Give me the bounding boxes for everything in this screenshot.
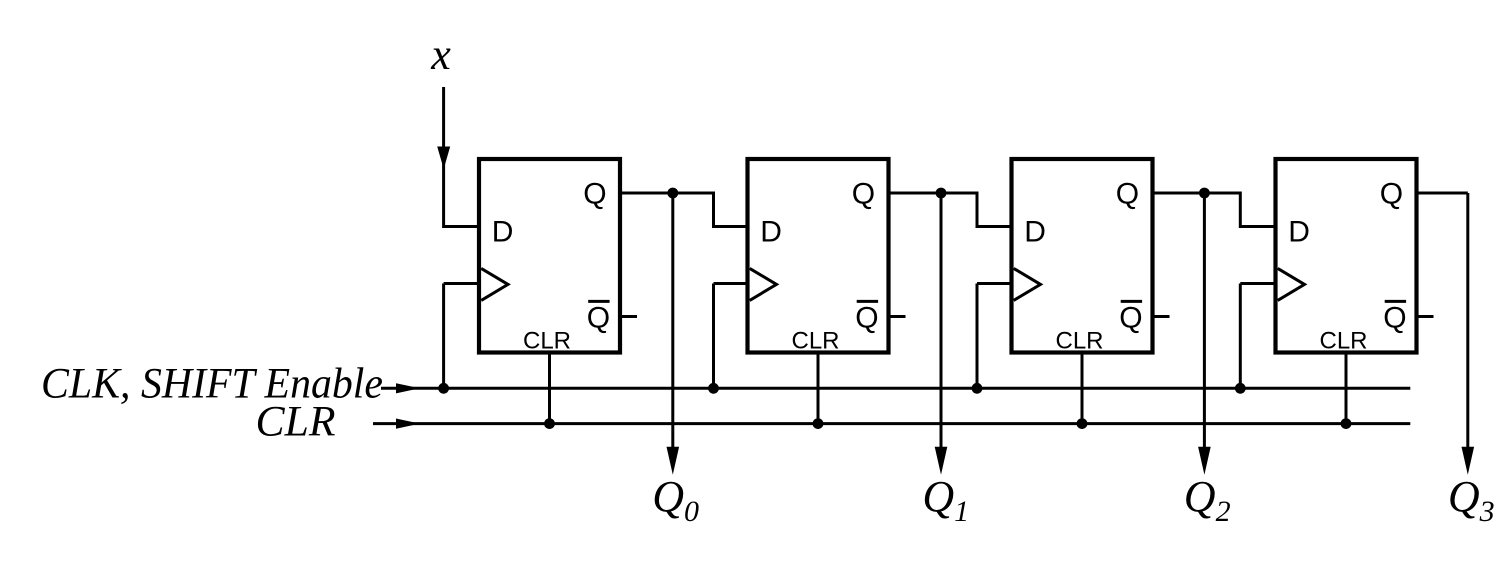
svg-text:D: D [492,216,514,249]
svg-text:x: x [430,30,451,79]
svg-text:CLR: CLR [791,328,839,355]
svg-text:CLR: CLR [523,328,571,355]
svg-text:Q: Q [587,302,610,335]
svg-text:Q: Q [1380,178,1403,211]
svg-text:D: D [760,216,782,249]
svg-text:Q: Q [583,178,606,211]
svg-text:CLR: CLR [256,399,336,446]
svg-text:Q: Q [1119,302,1142,335]
svg-text:Q: Q [1116,178,1139,211]
svg-text:Q: Q [855,302,878,335]
svg-text:Q: Q [852,178,875,211]
svg-text:D: D [1288,216,1310,249]
svg-text:D: D [1024,216,1046,249]
svg-text:CLR: CLR [1319,328,1367,355]
svg-text:CLR: CLR [1055,328,1103,355]
svg-text:Q: Q [1383,302,1406,335]
